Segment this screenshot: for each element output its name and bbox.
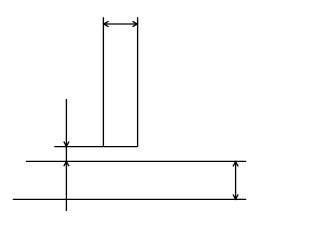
top width dimension right arrowhead (132, 21, 137, 26)
vertical board right edge (137, 17, 139, 146)
right thickness dimension shaft (235, 161, 237, 199)
left gap dimension down arrowhead (64, 142, 69, 147)
slab bottom line C (13, 198, 246, 200)
top width dimension left arrowhead (104, 21, 109, 26)
right thickness dimension up arrowhead (233, 162, 238, 167)
vertical board left edge (102, 17, 104, 146)
right thickness dimension down arrowhead (233, 194, 238, 199)
slab top line B (26, 160, 246, 162)
seat line A (54, 146, 137, 148)
top width dimension shaft (103, 23, 137, 25)
left gap dimension up arrowhead (64, 162, 69, 167)
left gap dimension line (65, 99, 67, 211)
